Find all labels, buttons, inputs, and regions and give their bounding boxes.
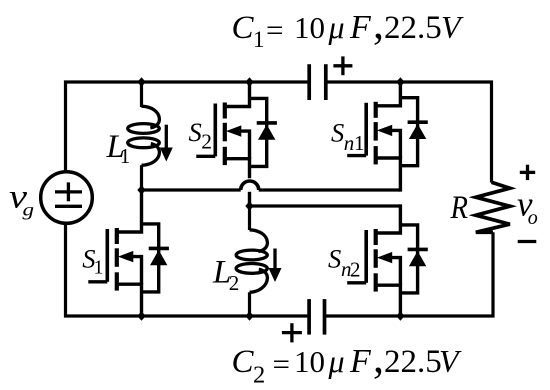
node: bottom rail / Sn2 source [396,311,404,321]
svg-text:C: C [232,344,255,380]
Sn2 diode triangle [409,251,426,266]
C1 polarity plus [333,56,352,75]
Sn2 gate bar [364,230,368,283]
wire L1 top lead [140,82,143,107]
svg-text:μ: μ [328,343,345,379]
svg-text:S: S [189,117,202,147]
C2 polarity plus [282,323,302,342]
S2 gate lead [196,155,215,158]
S1 drain lead and wire [117,190,142,232]
Sn2 channel segments [374,229,378,245]
wire left branch below vg + bottom rail left of C2 [66,224,310,317]
svg-text:1: 1 [253,27,265,52]
wire from R bottom + bottom rail right of C2 [325,232,494,316]
S2 source wire below crossover to node B [248,192,251,206]
Sn1 diode cathode bar [408,120,428,124]
svg-text:2: 2 [350,257,361,281]
wire rail A right segment (crossover to Sn1 source) [259,188,401,191]
capacitor C2 plates [309,299,324,335]
output plus sign [520,165,535,180]
node B: S2 source / L2 / rail B [245,201,253,211]
S2 body diode branch [250,98,267,166]
transistor S2 (MOSFET with body diode) [196,82,277,206]
L2 current arrow [273,249,276,271]
wire top rail right of C1 + right branch down to R [326,82,492,183]
S2 diode triangle [258,125,275,140]
svg-text:1: 1 [94,257,104,279]
wire rail A left segment (L1/S1 node to crossover) [142,188,241,191]
S1 body arrow [118,251,133,262]
S1 gate bar [106,229,110,282]
svg-text:22.5: 22.5 [384,10,442,46]
Sn2 gate lead [347,281,366,284]
svg-text:F: F [349,9,372,46]
svg-text:1: 1 [354,131,365,155]
svg-text:μ: μ [328,9,345,45]
transistor S1 (MOSFET with body diode) [88,190,169,316]
Sn2 drain lead and wire [376,204,401,233]
S2 body arrow [226,125,241,136]
node: top rail / L1 [137,77,145,87]
S1 body connection [132,257,142,285]
svg-text:o: o [528,207,538,229]
output minus sign [518,240,537,243]
node: top rail / S2 drain [245,77,253,87]
wire L2 bottom lead [248,292,251,316]
svg-text:22.5: 22.5 [384,344,442,380]
node A: L1 bottom / S1 drain / rail A [137,185,145,195]
wire rail B (node B to Sn2 drain) [250,204,401,207]
S1 diode cathode bar [149,247,169,251]
svg-text:C: C [232,10,255,46]
Sn2 body connection [391,258,401,286]
svg-text:,: , [373,0,384,48]
Sn1 gate bar [364,103,368,156]
svg-text:,: , [373,333,384,382]
S2 diode cathode bar [257,121,277,125]
node: bottom rail / L2 [245,311,253,321]
inductor L2 coil [236,230,267,292]
voltage source vg circle [41,172,93,224]
S1 channel segments [115,228,119,244]
svg-text:2: 2 [229,271,240,295]
svg-text:g: g [23,199,35,219]
S1 body diode branch [142,224,159,292]
wire L2 top lead [248,206,251,230]
Sn1 body arrow [377,125,392,136]
S2 body connection [240,131,250,159]
node: top rail / Sn1 drain [396,77,404,87]
Sn1 body diode branch [400,98,417,166]
svg-text:F: F [349,343,372,380]
svg-text:R: R [450,190,468,226]
Sn1 drain lead and wire [376,82,401,106]
Sn1 source lead and wire [376,158,401,192]
Sn2 source lead and wire [376,285,401,316]
transistor Sn2 (MOSFET with body diode) [347,204,428,316]
Sn2 diode cathode bar [408,248,428,252]
S2 channel segments [223,103,227,119]
voltage source minus sign [55,205,82,208]
Sn1 diode triangle [409,124,426,139]
svg-text:S: S [328,244,341,274]
voltage source plus sign [55,182,82,201]
svg-text:=: = [273,347,290,382]
svg-text:1: 1 [120,144,131,168]
svg-text:2: 2 [253,362,265,389]
wire L1 bottom lead to node A [140,165,143,190]
Sn1 body connection [391,130,401,158]
svg-text:n: n [344,131,355,155]
S1 source lead and wire [117,284,142,316]
wire crossover bump over S2-L2 wire [241,181,259,190]
S1 diode triangle [150,250,167,265]
Sn1 gate lead [347,154,366,157]
svg-text:2: 2 [201,129,212,153]
inductor L1 coil [128,106,160,165]
Sn2 body arrow [377,252,392,263]
transistor Sn1 (MOSFET with body diode) [347,82,428,192]
node: bottom rail / S1 source [137,311,145,321]
S2 gate bar [214,104,218,157]
svg-text:=: = [266,13,283,48]
Sn2 body diode branch [400,225,417,293]
svg-text:S: S [331,118,344,148]
wire top rail left of C1 + left branch down to vg [66,82,310,172]
svg-text:10: 10 [294,10,325,45]
S1 gate lead [88,280,107,283]
resistor R zigzag [476,182,510,232]
S2 source lead and wire [225,159,250,179]
S2 drain lead and wire [225,82,250,107]
svg-text:10: 10 [294,344,325,379]
L1 current arrow [165,125,168,150]
capacitor C1 plates [309,64,326,100]
Sn1 channel segments [374,102,378,118]
